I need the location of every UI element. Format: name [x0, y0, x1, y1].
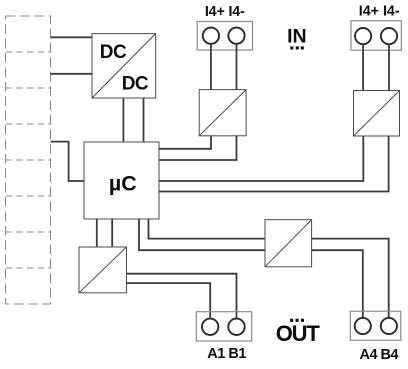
wire: right isolator to uC b — [159, 136, 389, 192]
svg-text:OUT: OUT — [276, 321, 321, 346]
svg-text:DC: DC — [122, 73, 149, 94]
input terminal block left — [197, 22, 252, 51]
svg-text:DC: DC — [100, 42, 127, 63]
output terminal block left — [196, 312, 251, 341]
wire: left isolator to uC a — [159, 136, 211, 149]
bus connector (dashed terminal strip) — [6, 16, 51, 304]
terminal I4+ left — [203, 28, 219, 44]
microcontroller uC — [84, 142, 159, 219]
output isolator mid — [265, 220, 312, 267]
input isolator right — [354, 91, 400, 137]
terminal I4- right — [381, 28, 397, 44]
input isolator left — [199, 90, 246, 136]
wire: left isolator to left output terminal B1 — [127, 274, 237, 319]
output terminal block right — [350, 311, 401, 340]
svg-text:I4+ I4-: I4+ I4- — [205, 4, 245, 20]
terminal I4- left — [228, 28, 244, 44]
output isolator left — [79, 247, 127, 293]
svg-text:A4 B4: A4 B4 — [359, 347, 398, 363]
terminal I4+ right — [355, 28, 371, 44]
terminal A4 — [355, 318, 371, 334]
wire: uC to output isolator mid b — [149, 219, 266, 239]
svg-text:IN: IN — [287, 25, 307, 47]
wire: uC to output isolator left b — [111, 219, 113, 247]
terminal A1 — [202, 319, 218, 335]
input terminal block right — [351, 21, 401, 51]
wire: bus to uC — [51, 142, 85, 181]
wire: mid isolator to right output terminal A4 — [312, 250, 363, 318]
terminal B4 — [381, 318, 397, 334]
DC/DC converter — [92, 34, 156, 98]
wire: bus to DC/DC upper — [51, 36, 93, 38]
svg-text:I4+ I4-: I4+ I4- — [359, 4, 400, 20]
terminal B1 — [228, 319, 244, 335]
wire: left input terminal - to isolator — [236, 44, 238, 90]
wire: right isolator to uC a — [159, 136, 363, 181]
ellipsis under IN — [290, 46, 304, 49]
wire: uC to output isolator mid a — [139, 219, 265, 250]
wire: DC/DC to uC left — [122, 98, 124, 142]
wire: left input terminal + to isolator — [210, 44, 212, 90]
wire: right input terminal - to isolator — [388, 44, 390, 90]
wire: mid isolator to right output terminal B4 — [312, 239, 389, 319]
wire: uC to output isolator left a — [96, 219, 98, 247]
wire: right input terminal + to isolator — [362, 44, 364, 90]
wire: left isolator to left output terminal A1 — [127, 283, 211, 319]
ellipsis over OUT — [290, 319, 304, 322]
wire: left isolator to uC b — [159, 136, 237, 160]
wire: bus to DC/DC lower — [51, 73, 93, 75]
svg-text:A1 B1: A1 B1 — [207, 346, 246, 362]
svg-text:µC: µC — [109, 172, 137, 196]
wire: DC/DC to uC right — [143, 98, 145, 142]
